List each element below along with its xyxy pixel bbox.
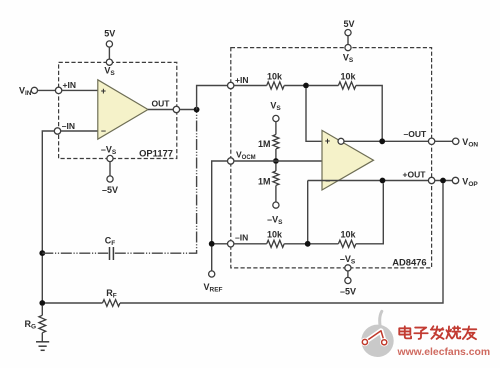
svg-text:–5V: –5V [102, 185, 118, 195]
amplifier U2 triangle [322, 130, 374, 190]
wire −IN pin to op-amp [61, 130, 98, 132]
svg-text:–OUT: –OUT [404, 129, 427, 139]
feedback tap circle on triangle edge [338, 138, 344, 144]
pin +IN (U1) [55, 80, 76, 93]
junction node A [194, 107, 200, 113]
wire node G up to amp − input [307, 181, 309, 242]
wire −OUT line [344, 140, 428, 142]
pin VOCM (U2) [228, 150, 256, 165]
resistor RG [24, 306, 45, 342]
wire CF dash-dot right and up to node A [115, 113, 197, 254]
svg-text:www.elecfans.com: www.elecfans.com [397, 347, 491, 358]
junction node I (−OUT / feedback) [379, 138, 385, 144]
svg-text:5V: 5V [343, 19, 354, 29]
ground [36, 342, 49, 351]
wire amp − input / +OUT line [308, 180, 429, 182]
junction node E (RF tap) [440, 178, 446, 184]
pin +IN (U2) [228, 75, 249, 89]
resistor R2 10k [338, 72, 356, 90]
−VS pin (U2) [340, 254, 356, 297]
wire CF dash-dot left [42, 252, 108, 254]
wire node A up to +IN (U2) [197, 86, 228, 110]
wire +IN to R1 [234, 85, 267, 87]
op-amp U1 triangle [98, 80, 148, 139]
svg-text:+: + [101, 86, 106, 96]
wire R1 to node D [284, 85, 306, 87]
wire node G to R4 [310, 243, 338, 245]
svg-text:AD8476: AD8476 [392, 257, 426, 268]
pin −IN (U1) [54, 121, 75, 134]
svg-text:OP1177: OP1177 [139, 148, 173, 159]
terminal VOP [452, 177, 478, 189]
wire R2 right and down to −OUT node [356, 86, 382, 142]
svg-text:+: + [325, 136, 330, 146]
resistor R6 1M [258, 164, 283, 226]
VS mid supply [270, 101, 281, 135]
terminal VIN [19, 86, 38, 98]
junction node D [303, 83, 309, 89]
pin −IN (U2) [228, 233, 249, 248]
svg-text:10k: 10k [340, 229, 356, 239]
wire node F to −IN pin [214, 243, 227, 245]
wire −IN pin left and down to feedback node [42, 131, 54, 303]
capacitor C_F [105, 236, 116, 260]
5V supply (right) [343, 19, 355, 64]
junction node H (VOCM divider) [273, 158, 279, 164]
wire −IN to R3 [234, 243, 267, 245]
wire VOCM pin to divider and amp [234, 160, 322, 162]
svg-text:1M: 1M [258, 139, 271, 149]
watermark logo [361, 311, 394, 357]
junction node F (VOCM/VREF/−IN tie) [209, 241, 215, 247]
resistor R3 10k [267, 229, 284, 247]
wire VIN to +IN pin [38, 89, 56, 91]
wire +OUT pin to VOP [435, 180, 453, 182]
svg-text:–IN: –IN [235, 233, 248, 243]
resistor R4 10k [338, 229, 356, 247]
svg-text:–: – [101, 126, 106, 136]
svg-text:–IN: –IN [62, 121, 75, 131]
svg-text:+OUT: +OUT [403, 170, 427, 180]
wire +IN pin to op-amp [62, 89, 98, 91]
svg-text:10k: 10k [340, 72, 356, 82]
junction node C (RG / RF tap) [39, 300, 45, 306]
svg-text:–5V: –5V [340, 287, 356, 297]
terminal VREF [204, 271, 223, 294]
svg-text:10k: 10k [267, 72, 283, 82]
junction node G [305, 241, 311, 247]
resistor R1 10k [267, 72, 284, 90]
wire node D to R2 [309, 85, 339, 87]
svg-text:+IN: +IN [63, 80, 76, 90]
wire VOCM external to node F [212, 161, 228, 244]
−VS pin (U1) [101, 145, 118, 196]
svg-text:+IN: +IN [235, 75, 248, 85]
amplifier U2 AD8476 dashed box [231, 48, 432, 268]
wire −OUT pin to VON [435, 140, 453, 142]
watermark text (vector strokes for CJK "electronics fans") [399, 326, 476, 339]
wire node D down to amp + input [306, 88, 322, 141]
svg-text:1M: 1M [258, 177, 271, 187]
wire RF to node E riser [120, 183, 443, 303]
svg-text:OUT: OUT [152, 99, 171, 109]
resistor RF [45, 288, 120, 306]
svg-text:10k: 10k [267, 229, 283, 239]
pin +OUT (U2) [428, 177, 434, 183]
resistor R5 1M [258, 135, 279, 162]
wire R4 right and up to +OUT node [356, 183, 383, 244]
junction node B (CF tap on feedback wire) [39, 250, 45, 256]
wire node F down to VREF [211, 247, 213, 271]
pin −OUT (U2) [428, 138, 434, 144]
wire op-amp output to OUT pin [148, 109, 173, 111]
5V supply (left) [104, 29, 115, 78]
svg-text:5V: 5V [104, 29, 115, 39]
terminal VON [453, 137, 479, 149]
wire OUT pin to node A [180, 109, 197, 111]
op-amp U1 OP1177 dashed box [59, 62, 177, 158]
junction node J (+OUT / feedback) [380, 178, 386, 184]
pin OUT (U1) [173, 106, 179, 112]
wire R3 to node G [284, 243, 308, 245]
